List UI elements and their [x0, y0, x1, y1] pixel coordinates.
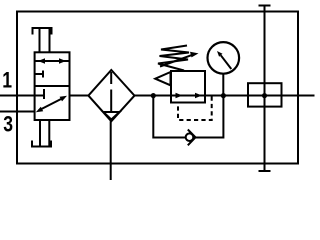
svg-text:3: 3	[3, 113, 13, 137]
svg-text:1: 1	[2, 69, 12, 93]
